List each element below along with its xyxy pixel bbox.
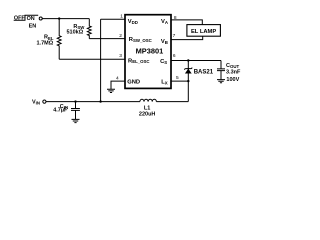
wire right net vertical — [187, 61, 189, 102]
svg-text:OFF: OFF — [14, 16, 25, 22]
ground CIN — [72, 119, 80, 122]
resistor REL — [57, 19, 61, 60]
wire pin1 VDD stub — [101, 18, 125, 20]
IC MP3801 body — [125, 15, 171, 89]
svg-text:7: 7 — [173, 33, 176, 39]
inductor L1 — [140, 99, 156, 101]
wire pin3 — [59, 58, 125, 60]
svg-text:1: 1 — [120, 14, 123, 20]
capacitor CIN — [71, 102, 80, 120]
resistor RSW — [87, 19, 91, 39]
wire rail after L1 — [156, 101, 188, 103]
junction node diode/pin6 — [187, 59, 189, 61]
svg-text:EL LAMP: EL LAMP — [191, 29, 216, 35]
svg-text:5: 5 — [176, 75, 179, 81]
svg-text:4.7µF: 4.7µF — [53, 108, 68, 114]
svg-text:CS: CS — [160, 59, 167, 65]
wire VIN rail — [46, 101, 140, 103]
svg-text:RSW_OSC: RSW_OSC — [129, 37, 153, 43]
EL LAMP box — [187, 25, 221, 37]
svg-text:3: 3 — [119, 53, 122, 59]
svg-text:1.7MΩ: 1.7MΩ — [37, 40, 54, 46]
svg-text:MP3801: MP3801 — [136, 46, 164, 55]
svg-text:6: 6 — [173, 53, 176, 59]
junction node CIN — [74, 100, 76, 102]
svg-text:ON: ON — [27, 16, 35, 22]
svg-text:3.3nF: 3.3nF — [226, 70, 241, 76]
svg-text:2: 2 — [119, 33, 122, 39]
svg-text:COUT: COUT — [226, 63, 240, 69]
svg-text:EN: EN — [29, 24, 37, 30]
svg-text:VB: VB — [161, 39, 168, 45]
ground pin4 — [107, 89, 115, 92]
svg-text:LX: LX — [161, 80, 168, 86]
svg-text:4: 4 — [116, 76, 119, 82]
junction node pin5 — [187, 80, 189, 82]
svg-text:510kΩ: 510kΩ — [67, 30, 84, 36]
svg-text:8: 8 — [174, 15, 177, 21]
junction node VDD/VIN rail — [99, 100, 101, 102]
svg-text:VDD: VDD — [128, 19, 138, 25]
terminal circle EN — [39, 17, 42, 20]
diode BAS21 triangle — [186, 69, 192, 73]
wire pin4 to ground — [111, 81, 125, 89]
wire pin8 — [171, 20, 202, 25]
svg-text:VIN: VIN — [32, 99, 40, 105]
wire pin7 — [171, 36, 203, 39]
diode BAS21 bar — [184, 68, 192, 70]
capacitor COUT — [217, 61, 225, 80]
switch step line OFF/ON — [14, 15, 39, 20]
wire pin5 — [171, 80, 188, 82]
wire VDD vertical drop to VIN rail — [100, 19, 102, 101]
svg-text:BAS21: BAS21 — [194, 69, 214, 75]
svg-text:220uH: 220uH — [139, 111, 156, 117]
wire pin2 — [89, 38, 125, 40]
svg-text:REL_OSC: REL_OSC — [128, 58, 150, 64]
wire EN top — [42, 18, 89, 20]
wire pin6 — [171, 60, 221, 62]
svg-text:100V: 100V — [226, 77, 239, 83]
ground COUT — [217, 80, 225, 83]
junction node EN/REL — [58, 17, 60, 19]
terminal circle VIN — [43, 100, 46, 103]
svg-text:VA: VA — [161, 19, 169, 25]
svg-text:GND: GND — [127, 80, 140, 86]
